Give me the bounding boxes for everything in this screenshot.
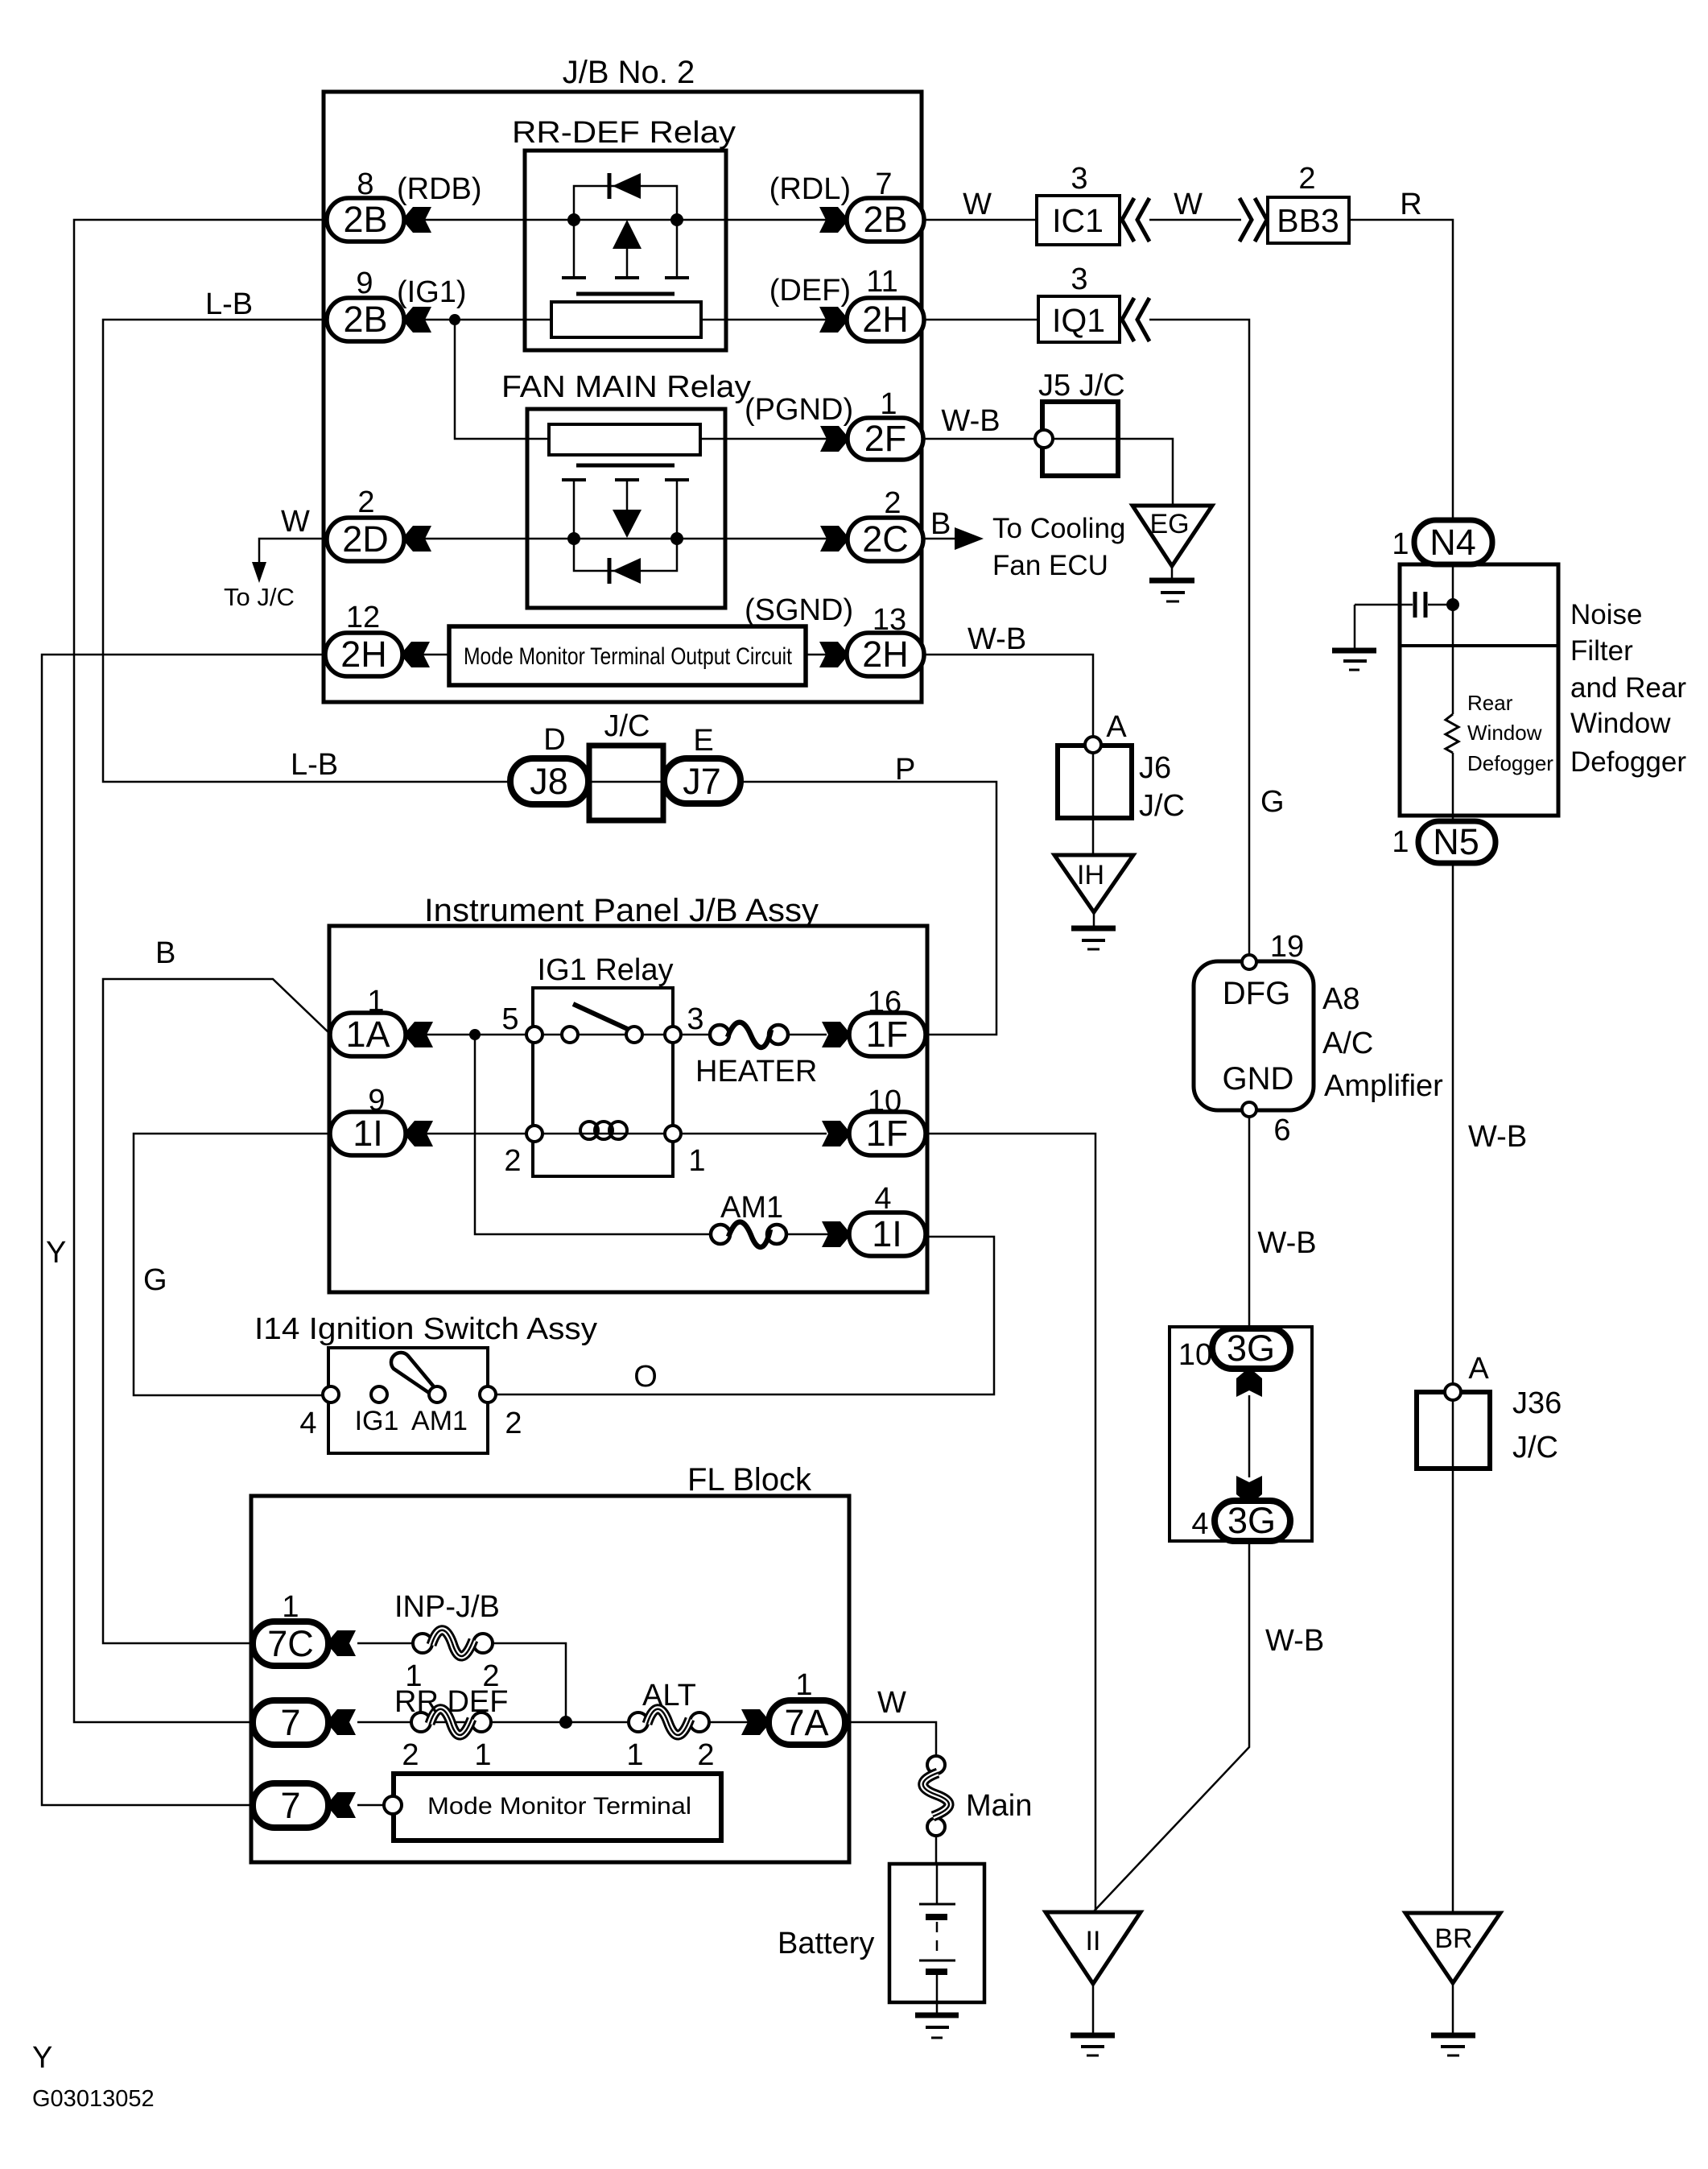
arrow to cooling fan ECU xyxy=(955,527,984,550)
junction dot at IG1 branch xyxy=(449,314,460,325)
connector 1I pin 4 xyxy=(849,1213,926,1256)
svg-text:1A: 1A xyxy=(345,1014,390,1055)
battery dashed link xyxy=(936,1922,939,1956)
svg-text:(RDL): (RDL) xyxy=(769,172,851,206)
connector 7A pin 1 xyxy=(769,1700,845,1745)
svg-text:2: 2 xyxy=(504,1144,521,1178)
arrow into 1A xyxy=(406,1022,433,1047)
svg-text:IQ1: IQ1 xyxy=(1052,302,1105,339)
FAN MAIN relay coil xyxy=(549,424,700,455)
ground symbol IH xyxy=(1071,928,1116,949)
IG1 relay switch blade xyxy=(573,1004,633,1031)
svg-text:IG1: IG1 xyxy=(355,1406,399,1436)
svg-text:IH: IH xyxy=(1077,860,1104,890)
battery ground xyxy=(915,2015,959,2038)
connector 2C pin 2 xyxy=(848,518,923,561)
arrow into 7 (RR DEF row) xyxy=(328,1709,356,1735)
connector J7 xyxy=(664,758,741,804)
Mode Monitor Terminal Output Circuit box xyxy=(449,626,806,685)
arrow into 1F(16) xyxy=(822,1022,849,1047)
J/B No. 2 box xyxy=(324,92,922,702)
svg-text:12: 12 xyxy=(346,601,380,634)
svg-text:11: 11 xyxy=(866,265,897,299)
Instrument Panel J/B Assy box xyxy=(329,926,927,1292)
connector 3G pin 10 xyxy=(1212,1328,1290,1369)
RR-DEF relay armature legs xyxy=(574,220,677,278)
splice IC1 xyxy=(1037,196,1120,245)
svg-text:16: 16 xyxy=(868,985,901,1019)
svg-text:Amplifier: Amplifier xyxy=(1324,1069,1443,1103)
svg-text:A: A xyxy=(1106,710,1127,744)
svg-text:(DEF): (DEF) xyxy=(769,274,851,308)
battery plate long top xyxy=(919,1903,955,1906)
arrow into 2F xyxy=(820,426,848,452)
connector 1I pin 9 xyxy=(330,1112,406,1155)
svg-text:P: P xyxy=(895,753,915,787)
svg-text:J/C: J/C xyxy=(1512,1431,1558,1465)
svg-text:2: 2 xyxy=(505,1407,522,1440)
svg-text:HEATER: HEATER xyxy=(695,1055,817,1089)
svg-text:J36: J36 xyxy=(1512,1386,1562,1420)
connector block 3G box xyxy=(1170,1327,1312,1541)
wire row 1I to 1F(10) xyxy=(423,1133,827,1135)
ground triangle BR xyxy=(1405,1913,1500,1983)
wire Y from 2H(12) to FL block 7 xyxy=(42,655,325,1805)
wire 2B(7) to IC1 xyxy=(924,219,1037,221)
svg-text:2: 2 xyxy=(697,1738,714,1772)
svg-text:Filter: Filter xyxy=(1570,635,1633,667)
splice circle J36 xyxy=(1445,1384,1461,1400)
Noise Filter and Rear Window Defogger text xyxy=(1570,599,1686,778)
arrow into 1I(4) xyxy=(822,1221,849,1247)
chevrons after IQ1 xyxy=(1122,298,1149,341)
ground triangle IH xyxy=(1054,855,1133,912)
svg-text:E: E xyxy=(693,724,713,758)
FAN MAIN relay lower diode frame xyxy=(574,539,677,571)
battery internal wire top xyxy=(936,1865,939,1903)
ignition switch contacts xyxy=(323,1386,496,1403)
svg-text:1: 1 xyxy=(795,1668,812,1702)
svg-text:RR-DEF Relay: RR-DEF Relay xyxy=(512,116,736,150)
connector 1A pin 1 xyxy=(330,1013,406,1056)
RR-DEF relay contact bar xyxy=(576,292,675,296)
arrow into 7A xyxy=(741,1709,769,1735)
connector 2D pin 2 xyxy=(327,518,404,561)
connector 7 (mode monitor row) xyxy=(253,1783,328,1828)
junction dot capacitor xyxy=(1446,598,1459,611)
svg-text:Y: Y xyxy=(46,1236,66,1270)
ground triangle EG xyxy=(1132,506,1212,566)
svg-text:G: G xyxy=(143,1263,167,1297)
FAN MAIN relay diode triangle xyxy=(613,558,641,584)
connector 1F pin 16 xyxy=(849,1013,926,1056)
svg-text:J6: J6 xyxy=(1139,751,1171,785)
wire IC1 to BB3 xyxy=(1149,219,1241,221)
wire through J6 to IH xyxy=(1092,752,1095,855)
junction connector J6 box xyxy=(1058,746,1132,818)
RR-DEF relay box xyxy=(525,151,726,350)
splice BB3 xyxy=(1268,197,1349,243)
svg-text:AM1: AM1 xyxy=(411,1406,468,1436)
svg-text:1F: 1F xyxy=(866,1014,909,1055)
svg-text:2: 2 xyxy=(402,1738,419,1772)
wire A8 GND to 3G(10) xyxy=(1248,1117,1251,1330)
wire through D-E junction xyxy=(588,781,664,783)
svg-text:L-B: L-B xyxy=(205,287,253,321)
connector 2B pin 9 xyxy=(327,298,404,341)
capacitor C plates xyxy=(1415,592,1425,618)
svg-text:2H: 2H xyxy=(862,299,909,340)
svg-text:AM1: AM1 xyxy=(720,1191,783,1225)
junction dot row1 right xyxy=(670,213,683,226)
ground symbol EG xyxy=(1149,580,1194,601)
svg-text:2: 2 xyxy=(357,485,374,519)
noise filter divider xyxy=(1400,644,1558,647)
splice IQ1 xyxy=(1038,296,1120,342)
arrow down into 3G(4) xyxy=(1236,1476,1262,1503)
ground symbol capacitor xyxy=(1332,651,1376,670)
HEATER fuse xyxy=(710,1023,788,1047)
connector 2H pin 11 xyxy=(847,298,924,341)
svg-text:Main: Main xyxy=(966,1789,1032,1823)
svg-text:W: W xyxy=(963,188,992,221)
wire capacitor to ground xyxy=(1354,605,1356,649)
svg-text:7C: 7C xyxy=(267,1623,314,1664)
svg-text:1I: 1I xyxy=(353,1113,383,1154)
svg-text:1: 1 xyxy=(688,1144,705,1178)
wire BR to ground xyxy=(1452,1983,1454,2035)
svg-text:7: 7 xyxy=(280,1702,300,1743)
svg-text:1: 1 xyxy=(474,1738,491,1772)
svg-text:FAN MAIN Relay: FAN MAIN Relay xyxy=(501,370,751,404)
svg-text:9: 9 xyxy=(356,266,373,300)
svg-text:ALT: ALT xyxy=(642,1679,696,1712)
wire L-B from 2B(9) to J8 xyxy=(103,320,512,782)
svg-text:INP-J/B: INP-J/B xyxy=(394,1590,500,1624)
arrow into 2C xyxy=(820,526,848,552)
wire resistor to N5 xyxy=(1452,753,1454,821)
svg-text:N5: N5 xyxy=(1433,821,1479,862)
FAN MAIN relay armature legs xyxy=(574,480,677,539)
svg-text:10: 10 xyxy=(868,1084,901,1118)
svg-text:Noise: Noise xyxy=(1570,599,1642,630)
svg-text:2B: 2B xyxy=(343,299,387,340)
svg-text:GND: GND xyxy=(1223,1061,1294,1097)
connector 1F pin 10 xyxy=(849,1112,926,1155)
svg-text:Defogger: Defogger xyxy=(1467,751,1553,775)
wire INP-J/B fuse to RR DEF row xyxy=(491,1643,566,1722)
svg-text:1: 1 xyxy=(1392,825,1409,859)
svg-text:O: O xyxy=(633,1360,658,1394)
svg-text:W-B: W-B xyxy=(1265,1624,1324,1658)
svg-text:4: 4 xyxy=(299,1407,316,1440)
svg-text:L-B: L-B xyxy=(291,748,338,782)
To Cooling Fan ECU text xyxy=(992,513,1125,581)
AM1 fuse xyxy=(711,1222,786,1247)
svg-text:W-B: W-B xyxy=(1257,1226,1316,1260)
RR-DEF relay diode triangle xyxy=(613,173,641,199)
svg-text:3: 3 xyxy=(1071,262,1087,296)
wire EG to ground xyxy=(1171,566,1174,579)
svg-text:2B: 2B xyxy=(343,199,387,240)
IG1 relay box xyxy=(533,988,673,1176)
FAN MAIN relay diode bar xyxy=(608,558,612,584)
svg-text:J8: J8 xyxy=(530,761,568,802)
svg-text:Instrument Panel J/B Assy: Instrument Panel J/B Assy xyxy=(424,893,819,928)
wire IH to ground xyxy=(1093,912,1095,928)
ground symbol II xyxy=(1071,2035,1115,2055)
connector 2H pin 13 xyxy=(847,633,924,676)
wire B from 1A(1) to FL block 7C xyxy=(103,979,331,1643)
svg-text:Mode Monitor Terminal Output C: Mode Monitor Terminal Output Circuit xyxy=(464,643,793,670)
svg-text:10: 10 xyxy=(1178,1338,1212,1372)
svg-text:7A: 7A xyxy=(784,1702,828,1743)
wire 1F(10) to II xyxy=(926,1134,1095,1911)
chevrons before BB3 xyxy=(1240,198,1267,242)
wire row1 2B(8) to 2B(7) xyxy=(424,219,827,221)
wire row3 PGND coil to 2F xyxy=(455,320,827,439)
wire R from BB3 to N4 xyxy=(1349,220,1453,520)
ignition switch box xyxy=(328,1348,488,1453)
arrow into 7C xyxy=(328,1630,356,1656)
Main fuse xyxy=(923,1756,949,1836)
svg-text:DFG: DFG xyxy=(1223,976,1290,1011)
svg-text:Window: Window xyxy=(1570,708,1671,739)
svg-text:3: 3 xyxy=(1071,162,1087,196)
ground triangle II xyxy=(1046,1912,1141,1984)
svg-text:Window: Window xyxy=(1467,721,1542,745)
connector 2B pin 7 xyxy=(847,198,924,242)
IG1 relay coil terminals xyxy=(526,1126,681,1142)
wire Main fuse to battery xyxy=(935,1836,938,1865)
svg-text:Rear: Rear xyxy=(1467,691,1513,715)
FL Block box xyxy=(251,1496,849,1862)
svg-text:A/C: A/C xyxy=(1322,1027,1373,1060)
svg-text:G03013052: G03013052 xyxy=(32,2086,155,2112)
svg-text:Battery: Battery xyxy=(778,1927,874,1960)
connector 7C pin 1 xyxy=(253,1622,328,1666)
wire between 3G halves xyxy=(1248,1395,1251,1477)
arrow into 2H(12) xyxy=(402,642,430,667)
svg-text:19: 19 xyxy=(1270,930,1304,964)
svg-text:BR: BR xyxy=(1434,1923,1472,1954)
svg-text:7: 7 xyxy=(875,167,892,201)
noise filter box xyxy=(1400,564,1558,816)
svg-text:Defogger: Defogger xyxy=(1570,746,1686,778)
wire row5 2H(12) to 2H(13) xyxy=(423,654,827,656)
IG1 relay contact circles xyxy=(526,1027,681,1043)
wire W stub from 2D(2) to J/C xyxy=(259,539,327,565)
Rear Window Defogger inner text xyxy=(1467,691,1553,775)
splice circle J5 xyxy=(1035,430,1053,448)
svg-text:3: 3 xyxy=(687,1002,703,1036)
junction dot row1 left xyxy=(567,213,580,226)
wire row 1A to 1F(16) xyxy=(423,1034,827,1036)
svg-text:2C: 2C xyxy=(862,518,909,560)
wire G from IQ1 to A8 DFG xyxy=(1149,320,1249,955)
connector J8 xyxy=(510,758,588,804)
op-amp A8 A/C amplifier box xyxy=(1194,961,1314,1110)
wire AM1 fuse to 1I(4) xyxy=(786,1233,829,1236)
svg-text:B: B xyxy=(930,507,951,541)
pin 19 terminal circle xyxy=(1242,955,1256,969)
INP-J/B fuse xyxy=(413,1630,493,1656)
wire row RR DEF to 7A xyxy=(357,1721,644,1724)
arrow into 2B(7) xyxy=(819,207,847,233)
Mode Monitor Terminal box xyxy=(394,1774,721,1841)
svg-text:6: 6 xyxy=(1273,1113,1290,1147)
svg-text:3G: 3G xyxy=(1227,1328,1275,1369)
svg-text:2D: 2D xyxy=(342,518,389,560)
connector 3G pin 4 xyxy=(1215,1500,1290,1541)
FAN MAIN relay contact caps xyxy=(562,478,689,481)
wire 3G(4) to II xyxy=(1093,1541,1249,1912)
svg-text:To J/C: To J/C xyxy=(224,583,295,611)
svg-text:(RDB): (RDB) xyxy=(397,172,482,206)
FAN MAIN relay down diode xyxy=(613,510,642,538)
connector N5 xyxy=(1418,821,1496,863)
junction connector J5 box xyxy=(1042,402,1118,476)
svg-text:9: 9 xyxy=(368,1084,385,1118)
junction dot 1A row xyxy=(469,1029,481,1040)
svg-text:1I: 1I xyxy=(872,1213,902,1254)
battery plate short bottom xyxy=(926,1969,947,1975)
svg-text:D: D xyxy=(543,723,565,757)
arrow into 2H(11) xyxy=(819,307,847,333)
arrow To J/C down xyxy=(252,562,266,583)
svg-text:Y: Y xyxy=(32,2041,52,2075)
wire through J5 to EG xyxy=(1052,439,1173,506)
ALT fuse xyxy=(629,1709,709,1735)
svg-text:RR DEF: RR DEF xyxy=(394,1685,508,1719)
ground symbol BR xyxy=(1431,2035,1475,2055)
svg-text:II: II xyxy=(1086,1926,1101,1956)
wire 2H(13) to J6 xyxy=(924,655,1093,738)
svg-text:1: 1 xyxy=(367,985,384,1018)
capacitor wire xyxy=(1355,604,1413,606)
svg-text:J/C: J/C xyxy=(1139,789,1185,823)
svg-text:A: A xyxy=(1468,1352,1489,1386)
svg-text:3G: 3G xyxy=(1227,1500,1276,1541)
capacitor wire to node xyxy=(1428,604,1449,606)
junction dot row4 left xyxy=(567,532,580,545)
svg-text:2: 2 xyxy=(884,486,901,520)
wire 7C to INP-J/B fuse xyxy=(357,1642,415,1645)
IG1 relay coil xyxy=(580,1122,627,1139)
RR DEF fuse xyxy=(411,1709,491,1735)
svg-text:1: 1 xyxy=(1392,527,1409,561)
svg-text:and Rear: and Rear xyxy=(1570,672,1686,704)
svg-text:J7: J7 xyxy=(683,761,721,802)
svg-text:W-B: W-B xyxy=(967,622,1026,656)
arrow up into 3G(10) xyxy=(1236,1370,1262,1397)
wire from dot to AM1 fuse xyxy=(475,1035,713,1234)
pin 6 terminal circle xyxy=(1242,1102,1256,1117)
svg-text:W-B: W-B xyxy=(1468,1120,1527,1154)
svg-text:IG1 Relay: IG1 Relay xyxy=(538,953,674,987)
svg-text:(SGND): (SGND) xyxy=(745,593,853,627)
junction dot INP-J/B join xyxy=(559,1716,572,1729)
svg-text:4: 4 xyxy=(1191,1507,1208,1541)
svg-text:5: 5 xyxy=(501,1002,518,1036)
wire II to ground xyxy=(1092,1984,1095,2035)
svg-text:EG: EG xyxy=(1149,509,1189,539)
wire row2 2B(9) to 2H(11) xyxy=(424,319,827,321)
battery plate long bottom xyxy=(919,1960,955,1962)
svg-text:2H: 2H xyxy=(862,634,909,675)
svg-text:2H: 2H xyxy=(340,634,387,675)
wire 2H(11) to IQ1 xyxy=(924,319,1038,321)
svg-text:IC1: IC1 xyxy=(1052,202,1104,239)
wire 2F to J5 xyxy=(923,438,1036,440)
RR-DEF relay contact caps xyxy=(562,276,689,279)
arrow into 1I xyxy=(406,1121,433,1146)
svg-text:(PGND): (PGND) xyxy=(745,393,853,427)
svg-text:To Cooling: To Cooling xyxy=(992,513,1125,544)
arrow into 7 (mode monitor row) xyxy=(328,1792,356,1818)
svg-text:R: R xyxy=(1400,188,1421,221)
chevrons after IC1 xyxy=(1122,198,1149,242)
svg-text:J/B No. 2: J/B No. 2 xyxy=(563,55,695,90)
battery wire to ground xyxy=(936,1975,939,2014)
arrow into 2B(9) xyxy=(404,307,431,333)
svg-text:BB3: BB3 xyxy=(1277,202,1339,239)
wire N5 to J36 xyxy=(1452,863,1454,1386)
svg-text:FL Block: FL Block xyxy=(687,1462,812,1498)
wire P from J7 to 1F(16) xyxy=(739,782,996,1035)
FAN MAIN relay box xyxy=(527,409,725,608)
RR-DEF relay up diode xyxy=(613,220,642,249)
connector 2B pin 8 xyxy=(327,198,404,242)
svg-text:I14 Ignition Switch Assy: I14 Ignition Switch Assy xyxy=(254,1312,597,1346)
connector 2H pin 12 xyxy=(325,633,402,676)
svg-text:A8: A8 xyxy=(1322,982,1359,1016)
wire ALT to 7A xyxy=(709,1721,749,1724)
junction dot row4 right xyxy=(670,532,683,545)
svg-text:W: W xyxy=(281,505,310,539)
wire from 2B(8) to FL block 7 (RR DEF) xyxy=(74,220,325,1722)
wire B to cooling fan ECU xyxy=(923,538,956,540)
arrow into 2D xyxy=(404,526,431,552)
wire through J36 to BR xyxy=(1452,1398,1454,1913)
wire row4 2D(2) to 2C(2) xyxy=(424,538,827,540)
svg-text:G: G xyxy=(1260,785,1285,819)
svg-text:7: 7 xyxy=(280,1785,300,1826)
resistor rear window defogger xyxy=(1446,714,1458,753)
svg-text:Fan ECU: Fan ECU xyxy=(992,550,1108,581)
svg-text:8: 8 xyxy=(357,167,373,201)
svg-text:2B: 2B xyxy=(863,199,907,240)
svg-text:J/C: J/C xyxy=(604,709,650,743)
junction connector J36 box xyxy=(1417,1392,1490,1469)
svg-text:1: 1 xyxy=(626,1738,643,1772)
svg-text:2: 2 xyxy=(1298,162,1315,196)
connector 7 (RR DEF row) xyxy=(253,1700,328,1745)
svg-text:W: W xyxy=(877,1686,906,1720)
wire O from 1I(4) to ignition switch pin 2 xyxy=(488,1237,994,1394)
arrow into 2H(13) xyxy=(819,642,847,667)
svg-text:2F: 2F xyxy=(864,418,907,459)
splice circle J6 xyxy=(1085,737,1101,753)
connector 2F pin 1 xyxy=(848,418,923,460)
junction connector box D-E xyxy=(589,746,663,820)
ignition switch key lever xyxy=(391,1353,436,1394)
svg-text:4: 4 xyxy=(874,1182,891,1216)
arrow into 1F(10) xyxy=(822,1121,849,1146)
wire row bottom 7 to mode monitor xyxy=(357,1804,385,1807)
svg-text:N4: N4 xyxy=(1430,522,1476,563)
arrow into 2B(8) xyxy=(404,207,431,233)
